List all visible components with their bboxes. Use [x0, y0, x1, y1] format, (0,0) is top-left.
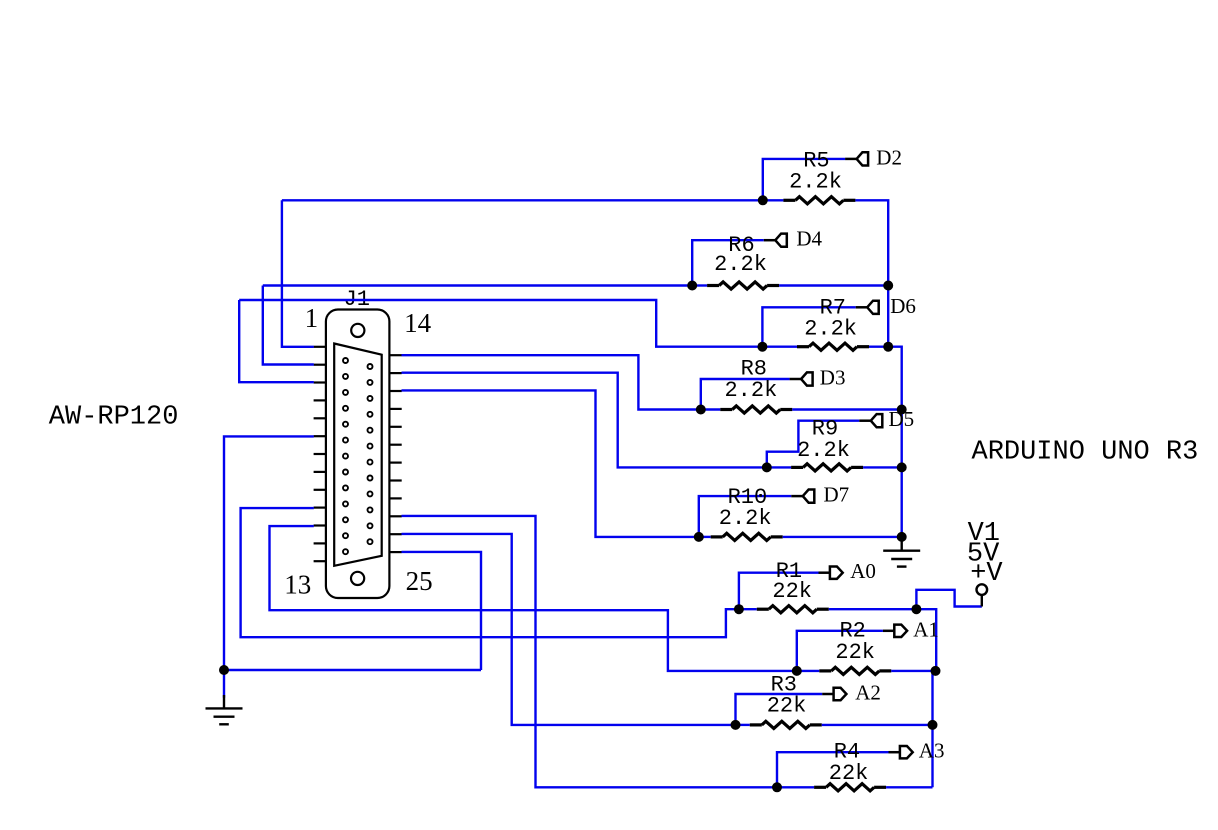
- svg-text:D6: D6: [890, 294, 916, 318]
- port D2: [845, 152, 868, 165]
- resistor R2: [819, 667, 891, 674]
- wire R1 right to rail: [829, 609, 936, 671]
- svg-text:1: 1: [305, 303, 319, 333]
- wire R10 left lead: [699, 536, 711, 538]
- port D3: [790, 372, 813, 385]
- resistor R6: [707, 282, 779, 289]
- resistor R1: [757, 606, 829, 613]
- svg-text:22k: 22k: [772, 579, 812, 604]
- svg-text:22k: 22k: [835, 640, 875, 665]
- resistor R3: [750, 721, 822, 728]
- wire R6 left lead: [692, 284, 707, 286]
- wire R1 stub to A0: [739, 573, 819, 610]
- node R10 junction: [694, 532, 704, 542]
- wire R4 left lead: [777, 786, 814, 788]
- svg-text:2.2k: 2.2k: [719, 506, 772, 531]
- wire R2 right to rail: [891, 670, 936, 672]
- port D4: [764, 234, 787, 247]
- wire R5 left lead: [763, 199, 784, 201]
- svg-text:A3: A3: [919, 739, 945, 763]
- port A1: [883, 625, 907, 637]
- svg-text:D2: D2: [876, 145, 902, 169]
- svg-text:AW-RP120: AW-RP120: [49, 402, 179, 432]
- wire pin3 to node: [239, 300, 314, 382]
- node R8 junction: [696, 405, 706, 415]
- wire pin24 to R3: [402, 534, 736, 725]
- svg-text:A1: A1: [913, 617, 939, 641]
- connector J1 (DB25): [314, 310, 402, 599]
- wire R1 left lead: [739, 608, 757, 610]
- svg-text:A2: A2: [855, 681, 881, 705]
- node rail-R6 junction: [883, 281, 893, 291]
- wire pin1 net to R5: [282, 199, 763, 201]
- wire to left ground: [223, 670, 225, 698]
- wire to +V terminal: [916, 590, 981, 609]
- wire pin23 to R4: [402, 516, 778, 787]
- wire pin2 net to R6: [263, 284, 692, 286]
- port A2: [822, 688, 846, 700]
- wire pin2 to node: [263, 286, 314, 365]
- port D6: [856, 301, 879, 314]
- svg-text:ARDUINO UNO R3: ARDUINO UNO R3: [972, 438, 1199, 468]
- port D7: [791, 490, 814, 503]
- svg-text:22k: 22k: [767, 694, 807, 719]
- svg-text:13: 13: [284, 569, 311, 599]
- svg-text:D5: D5: [889, 407, 915, 431]
- wire pin6 to ground rail: [224, 436, 314, 670]
- resistor R8: [720, 406, 792, 413]
- wire R2 left lead: [797, 670, 820, 672]
- node R3 junction: [731, 720, 741, 730]
- node R4 junction: [772, 782, 782, 792]
- power terminal V1 +V: [977, 584, 988, 595]
- wire R5 stub to D2: [763, 159, 845, 200]
- wire R8 right to rail: [792, 408, 901, 410]
- node R5 junction: [758, 195, 768, 205]
- wire pin16 to R10: [402, 390, 699, 537]
- wire R3 stub to A2: [736, 694, 823, 725]
- node R9 junction: [762, 462, 772, 472]
- wire R7 stub to D6: [762, 307, 855, 346]
- node rail-R3 junction: [928, 720, 938, 730]
- node ground-left junction: [219, 665, 229, 675]
- svg-text:2.2k: 2.2k: [724, 378, 777, 403]
- ground right: [883, 537, 920, 566]
- resistor R5: [783, 197, 855, 204]
- svg-text:+V: +V: [970, 559, 1003, 589]
- wire R9 stub to D5: [767, 421, 860, 468]
- wire ground rail horizontal: [224, 669, 481, 671]
- node rail-R8 junction: [897, 405, 907, 415]
- svg-text:2.2k: 2.2k: [789, 170, 842, 195]
- wire R3 left lead: [736, 724, 750, 726]
- port A0: [819, 567, 843, 579]
- svg-text:14: 14: [404, 308, 432, 338]
- wire pin3 net to R7: [239, 300, 762, 347]
- node R2 junction: [792, 666, 802, 676]
- node R1 right junction: [911, 604, 921, 614]
- wire R9 right to rail: [863, 466, 902, 468]
- node R7 junction: [757, 342, 767, 352]
- wire pin15 to R9: [402, 373, 767, 468]
- wire pin10 to R1: [241, 508, 739, 637]
- wire R8 left lead: [701, 408, 721, 410]
- ground left: [206, 695, 243, 724]
- wire R6 right to rail: [779, 284, 888, 286]
- node rail-R7 junction: [883, 342, 893, 352]
- wire pin1 to node: [282, 200, 314, 346]
- svg-text:2.2k: 2.2k: [804, 317, 857, 342]
- svg-text:25: 25: [406, 566, 433, 596]
- wire R6 stub to D4: [692, 240, 764, 285]
- resistor R10: [711, 533, 783, 540]
- wire pin25 to ground rail: [402, 552, 482, 670]
- node rail-R2 junction: [931, 666, 941, 676]
- port D5: [859, 414, 882, 427]
- node rail-R9 junction: [897, 462, 907, 472]
- svg-text:22k: 22k: [829, 761, 869, 786]
- wire analog rail lower: [933, 671, 937, 787]
- resistor R9: [791, 464, 863, 471]
- node R1 junction: [734, 604, 744, 614]
- node rail-R10 junction: [897, 532, 907, 542]
- node R6 junction: [687, 281, 697, 291]
- wire R9 left lead: [767, 466, 791, 468]
- svg-text:D7: D7: [824, 483, 850, 507]
- wire R3 right to rail: [822, 724, 933, 726]
- svg-text:A0: A0: [850, 559, 876, 583]
- wire R4 stub to A3: [777, 752, 889, 787]
- wire pin14 to R8: [402, 355, 701, 409]
- wire R10 stub to D7: [699, 496, 792, 537]
- wire R4 right to rail: [886, 786, 932, 788]
- wire R5 right to rail: [855, 200, 888, 346]
- wire R7 left lead: [762, 346, 797, 348]
- svg-text:D4: D4: [796, 227, 822, 251]
- wire R7 right to rail: [869, 347, 902, 537]
- resistor R7: [797, 343, 869, 350]
- svg-text:2.2k: 2.2k: [714, 252, 767, 277]
- wire R10 right to rail: [783, 536, 902, 538]
- svg-text:2.2k: 2.2k: [797, 438, 850, 463]
- wire R8 stub to D3: [701, 379, 790, 410]
- wire pin11 to R2: [270, 526, 797, 671]
- svg-text:D3: D3: [820, 366, 846, 390]
- wire R2 stub to A1: [797, 631, 883, 671]
- port A3: [889, 746, 913, 758]
- wire +V terminal lead: [981, 595, 983, 606]
- resistor R4: [814, 784, 886, 791]
